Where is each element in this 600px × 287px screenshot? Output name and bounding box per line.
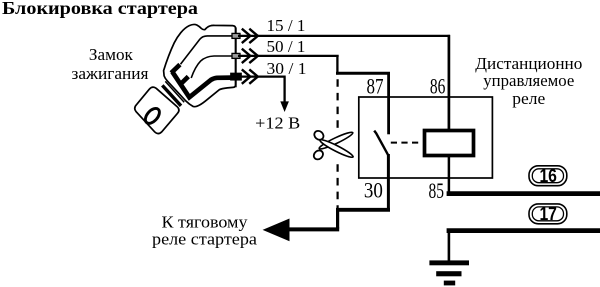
- connector badge 16: [529, 166, 567, 186]
- relay coil: [425, 131, 474, 156]
- dashed link switch to coil: [391, 142, 423, 144]
- svg-text:30 / 1: 30 / 1: [267, 59, 307, 78]
- connector pin 15/1: [232, 33, 240, 38]
- svg-text:16: 16: [539, 166, 557, 186]
- connector pin 30/1 (filled): [231, 73, 241, 80]
- scissors: loop 1: [313, 129, 326, 142]
- wire to node 86: [448, 35, 451, 130]
- relay box U1: [359, 97, 493, 178]
- scissors: blade 2: [319, 138, 355, 160]
- arrow to starter relay: [263, 219, 290, 242]
- ground: [429, 260, 469, 265]
- ignition lock inner wire to pin 15/1: [181, 36, 234, 64]
- dashed cut line (upper): [337, 79, 339, 128]
- wire 15/1: [238, 35, 450, 37]
- svg-text:50 / 1: 50 / 1: [267, 37, 306, 56]
- svg-text:Блокировка стартера: Блокировка стартера: [2, 0, 198, 18]
- lock collar white band edge: [165, 81, 184, 102]
- wire segment to terminal 87: [336, 72, 390, 75]
- chevron 15/1: [242, 29, 258, 43]
- svg-text:+12 В: +12 В: [255, 113, 300, 132]
- svg-text:реле стартера: реле стартера: [152, 230, 258, 249]
- key head: [135, 87, 179, 133]
- svg-text:зажигания: зажигания: [72, 64, 149, 83]
- svg-text:30: 30: [364, 178, 383, 203]
- ignition lock SW1 body: [164, 24, 236, 106]
- bus wire 17 / ground: [447, 228, 600, 233]
- svg-text:17: 17: [539, 204, 557, 224]
- wire from 30 down-left: [387, 154, 390, 210]
- svg-text:Замок: Замок: [89, 45, 134, 64]
- relay switch arm: [374, 131, 388, 155]
- svg-text:Дистанционно: Дистанционно: [475, 54, 582, 73]
- dashed cut line (lower): [337, 164, 339, 211]
- connector badge 17: [529, 204, 567, 224]
- arrow to +12V: [280, 101, 289, 112]
- ignition lock connector strip: [235, 28, 237, 88]
- bus wire 85 / 16: [447, 191, 600, 196]
- wire 30/1 stub to +12V: [238, 77, 286, 102]
- ignition lock inner wire to pin 50/1: [191, 56, 233, 78]
- lock collar black band (key shaft): [162, 85, 181, 105]
- svg-text:15 / 1: 15 / 1: [267, 16, 306, 35]
- svg-text:86: 86: [430, 73, 446, 98]
- svg-text:К тяговому: К тяговому: [162, 212, 249, 231]
- connector pin 50/1: [232, 53, 240, 58]
- scissors: blade 1: [318, 130, 354, 151]
- svg-text:управляемое: управляемое: [483, 71, 574, 90]
- svg-text:85: 85: [429, 178, 445, 203]
- svg-text:реле: реле: [512, 89, 545, 108]
- ground lead: [448, 231, 451, 261]
- ignition lock contact (thick E shape): [171, 65, 231, 98]
- svg-text:87: 87: [367, 74, 384, 99]
- key head oval hole: [143, 106, 162, 126]
- coil lead to 86 / 85: [448, 130, 451, 194]
- chevron 30/1: [242, 69, 258, 83]
- chevron 50/1: [242, 49, 258, 63]
- scissors: loop 2: [312, 149, 325, 162]
- wire 50/1: [238, 55, 339, 75]
